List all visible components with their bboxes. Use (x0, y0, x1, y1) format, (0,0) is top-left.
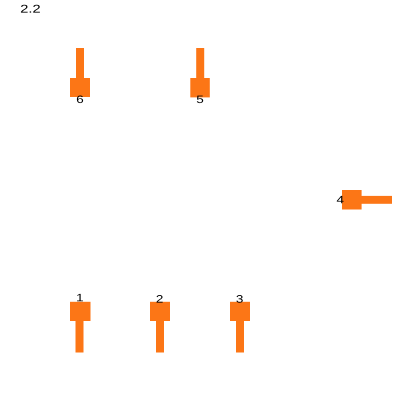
value label 2.2 (21, 5, 40, 13)
pin 4 (right) wire (360, 196, 392, 204)
pin 4 number (337, 196, 344, 203)
pin 5 (top-right) wire (196, 48, 204, 80)
pin 1 number (77, 294, 83, 301)
pin 3 (bottom-right) pad (230, 302, 250, 321)
pin 2 number (157, 295, 163, 303)
pin 5 number (197, 96, 203, 104)
pin 5 pad (190, 78, 210, 97)
pin 2 (bottom-middle) pad (150, 302, 170, 321)
pin 4 pad (342, 190, 362, 210)
pin 2 wire (156, 320, 164, 353)
pin 6 (top-left) wire (76, 48, 84, 80)
pin 3 wire (236, 320, 244, 353)
pin 1 (bottom-left) pad (70, 302, 91, 321)
pin 3 number (236, 295, 242, 303)
pin 6 pad (70, 78, 90, 97)
pin 6 number (77, 95, 83, 103)
pin 1 wire (76, 320, 84, 353)
